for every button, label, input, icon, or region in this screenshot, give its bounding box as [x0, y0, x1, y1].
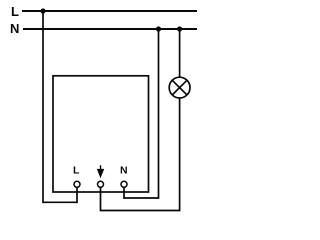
wire N bus [23, 28, 197, 30]
svg-text:N: N [120, 165, 128, 177]
terminal switched output (circle) [98, 181, 104, 187]
switch unit box [53, 76, 149, 192]
wire from lamp to switched-output terminal [101, 98, 180, 211]
wire from N bus to lamp [179, 29, 181, 77]
junction on L bus [40, 8, 45, 13]
lamp E1 [169, 77, 190, 98]
wire L bus [22, 10, 197, 12]
terminal N (circle) [121, 181, 127, 187]
junction on N bus feeding switch [156, 26, 161, 31]
wire from L bus to terminal L [43, 11, 77, 202]
junction on N bus feeding lamp [177, 26, 182, 31]
wire from N bus to terminal N [124, 29, 159, 198]
svg-text:L: L [73, 165, 80, 177]
terminal L (circle) [74, 181, 80, 187]
pin label switched output (down arrow) [98, 165, 103, 176]
svg-text:L: L [11, 4, 19, 19]
svg-text:N: N [10, 21, 19, 36]
